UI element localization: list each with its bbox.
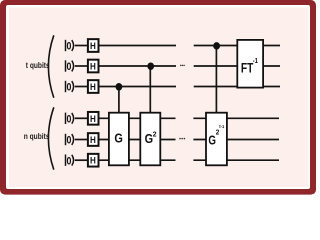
svg-text:H: H <box>90 113 96 124</box>
svg-text:t qubits: t qubits <box>26 60 50 70</box>
svg-text:t-1: t-1 <box>219 124 225 129</box>
svg-text:H: H <box>90 134 96 145</box>
svg-text:G: G <box>114 131 122 146</box>
svg-text:FT: FT <box>241 60 254 76</box>
svg-text:0: 0 <box>66 135 71 147</box>
svg-text:-1: -1 <box>253 57 259 65</box>
svg-text:H: H <box>90 40 96 51</box>
svg-text:0: 0 <box>66 61 71 73</box>
svg-text:H: H <box>90 81 96 92</box>
svg-text:0: 0 <box>66 82 71 94</box>
svg-text:0: 0 <box>66 156 71 168</box>
svg-text:2: 2 <box>153 130 157 138</box>
svg-text:0: 0 <box>66 41 71 53</box>
svg-text:2: 2 <box>216 129 220 137</box>
svg-text:H: H <box>90 155 96 166</box>
svg-text:0: 0 <box>66 114 71 126</box>
svg-text:H: H <box>90 61 96 72</box>
svg-text:n qubits: n qubits <box>24 131 50 141</box>
